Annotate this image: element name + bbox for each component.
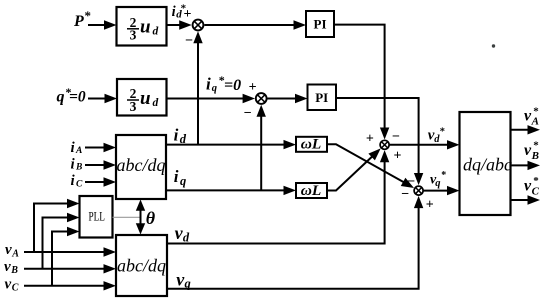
svg-text:=0: =0 bbox=[69, 89, 86, 106]
svg-text:θ: θ bbox=[146, 208, 156, 228]
wire iq to wL2 bbox=[166, 186, 296, 195]
svg-text:abc/dq: abc/dq bbox=[117, 256, 166, 276]
label iB bbox=[71, 156, 83, 172]
label iq bbox=[174, 167, 186, 188]
wire vB branch to PLL bbox=[43, 213, 80, 269]
svg-text:*: * bbox=[533, 140, 539, 152]
label vd bbox=[175, 223, 190, 245]
block abc/dq voltage bbox=[116, 235, 167, 296]
wire iB to abc/dq1 bbox=[85, 160, 116, 169]
wire vq elbow up to S4 bbox=[167, 196, 423, 289]
svg-text:B: B bbox=[10, 265, 18, 276]
wire vA to abc/dq2 bbox=[24, 247, 116, 256]
svg-text:*: * bbox=[533, 175, 539, 187]
wire PI2 elbow down to summer S4 bbox=[336, 98, 423, 185]
wire iA to abc/dq1 bbox=[85, 143, 116, 152]
summer S1 bbox=[193, 20, 204, 31]
wire wL1 diagonal to S4 bbox=[327, 144, 414, 188]
block PI2 bbox=[308, 85, 337, 111]
label vq* bbox=[430, 170, 446, 189]
svg-text:=0: =0 bbox=[224, 77, 241, 94]
wire out vC* bbox=[511, 195, 541, 204]
svg-text:i: i bbox=[206, 75, 211, 94]
svg-text:B: B bbox=[75, 163, 82, 173]
svg-text:abc/dq: abc/dq bbox=[117, 155, 166, 175]
svg-text:*: * bbox=[440, 127, 445, 138]
svg-text:−: − bbox=[185, 33, 193, 48]
label id bbox=[174, 126, 187, 146]
summer S4 bbox=[414, 186, 423, 195]
svg-text:d: d bbox=[153, 26, 159, 38]
label vd* bbox=[428, 127, 445, 146]
svg-text:−: − bbox=[401, 187, 409, 202]
wire out vA* bbox=[511, 125, 541, 134]
svg-text:+: + bbox=[366, 131, 374, 146]
wire q* to block G2 bbox=[88, 94, 117, 103]
svg-text:i: i bbox=[172, 4, 176, 20]
label P* bbox=[73, 8, 91, 30]
wire vA branch to PLL bbox=[34, 199, 80, 252]
block G1 (2/3 ud) bbox=[117, 7, 167, 46]
svg-text:C: C bbox=[532, 185, 540, 197]
label iC bbox=[71, 173, 84, 189]
svg-text:PI: PI bbox=[314, 17, 327, 32]
block PLL bbox=[80, 196, 113, 238]
block wL2 bbox=[296, 183, 327, 199]
wire vd elbow up to S3 bbox=[167, 150, 389, 243]
block abc/dq current bbox=[116, 135, 166, 199]
label iq*=0 bbox=[206, 73, 241, 94]
svg-text:*: * bbox=[533, 105, 539, 117]
wire G2 out to summer S2 bbox=[167, 94, 256, 103]
svg-text:*: * bbox=[441, 170, 446, 181]
svg-text:i: i bbox=[174, 126, 179, 145]
svg-text:v: v bbox=[5, 277, 12, 293]
label vC bbox=[5, 277, 19, 294]
svg-text:ωL: ωL bbox=[301, 183, 322, 199]
svg-text:A: A bbox=[11, 248, 19, 259]
svg-text:v: v bbox=[4, 259, 11, 275]
block dq/abc bbox=[460, 112, 513, 215]
block G2 (2/3 ud) bbox=[117, 79, 167, 116]
svg-text:3: 3 bbox=[130, 99, 137, 114]
svg-text:q: q bbox=[435, 178, 440, 189]
svg-text:u: u bbox=[140, 17, 151, 38]
label id* bbox=[172, 3, 187, 21]
svg-text:+: + bbox=[394, 149, 402, 164]
wire PI1 elbow down to summer S3 bbox=[334, 25, 389, 140]
node theta double arrow bbox=[136, 200, 145, 235]
block wL1 bbox=[296, 137, 327, 153]
svg-text:v: v bbox=[5, 242, 12, 258]
wire S2 to PI2 bbox=[268, 94, 308, 103]
label q*=0 bbox=[57, 85, 86, 106]
label iA bbox=[71, 140, 83, 156]
wire vC branch to PLL bbox=[52, 227, 80, 286]
label vA bbox=[5, 242, 19, 259]
svg-text:3: 3 bbox=[130, 28, 137, 43]
svg-text:−: − bbox=[392, 129, 400, 144]
svg-text:C: C bbox=[12, 283, 19, 294]
wire S4 to dq/abc bbox=[423, 186, 459, 195]
svg-text:PLL: PLL bbox=[88, 209, 105, 224]
svg-text:+: + bbox=[426, 197, 434, 212]
svg-text:−: − bbox=[244, 106, 252, 121]
svg-text:P: P bbox=[73, 13, 84, 30]
label vB* bbox=[524, 140, 539, 162]
svg-text:+: + bbox=[184, 7, 192, 22]
wire P* to block G1 bbox=[88, 20, 117, 29]
svg-text:d: d bbox=[153, 97, 159, 109]
wire G1 out to summer S1 bbox=[167, 20, 192, 29]
svg-text:A: A bbox=[75, 146, 82, 156]
svg-text:dq/abc: dq/abc bbox=[463, 155, 512, 175]
wire S1 to PI1 bbox=[204, 20, 306, 29]
label vA* bbox=[524, 105, 539, 127]
svg-text:+: + bbox=[249, 80, 257, 95]
block PI1 bbox=[306, 11, 334, 37]
wire vB to abc/dq2 bbox=[24, 264, 116, 273]
wire iq branch up to S2 bbox=[257, 105, 266, 191]
label vB bbox=[4, 259, 18, 276]
label vq bbox=[176, 269, 190, 290]
svg-text:q: q bbox=[180, 174, 186, 188]
wire iC to abc/dq1 bbox=[85, 177, 116, 186]
wire id to wL1 bbox=[166, 140, 296, 149]
summer S3 bbox=[380, 140, 389, 149]
svg-text:ωL: ωL bbox=[301, 137, 322, 153]
wire out vB* bbox=[511, 161, 541, 170]
wire vC to abc/dq2 bbox=[24, 281, 116, 290]
wire S3 to dq/abc bbox=[389, 140, 459, 149]
wire id branch up to S1 bbox=[193, 31, 202, 144]
summer S2 bbox=[256, 93, 267, 104]
svg-text:B: B bbox=[531, 150, 539, 162]
svg-text:q: q bbox=[57, 89, 65, 106]
label vC* bbox=[524, 175, 540, 197]
svg-text:d: d bbox=[183, 230, 190, 244]
svg-text:C: C bbox=[76, 179, 83, 189]
svg-text:q: q bbox=[212, 83, 217, 94]
svg-text:*: * bbox=[85, 8, 92, 23]
wire wL2 diagonal to S3 bbox=[327, 148, 381, 190]
wire PLL to theta node bbox=[113, 216, 141, 218]
stray mark bbox=[492, 44, 495, 47]
svg-text:PI: PI bbox=[315, 90, 328, 105]
svg-text:i: i bbox=[174, 167, 179, 186]
svg-text:u: u bbox=[140, 88, 151, 109]
